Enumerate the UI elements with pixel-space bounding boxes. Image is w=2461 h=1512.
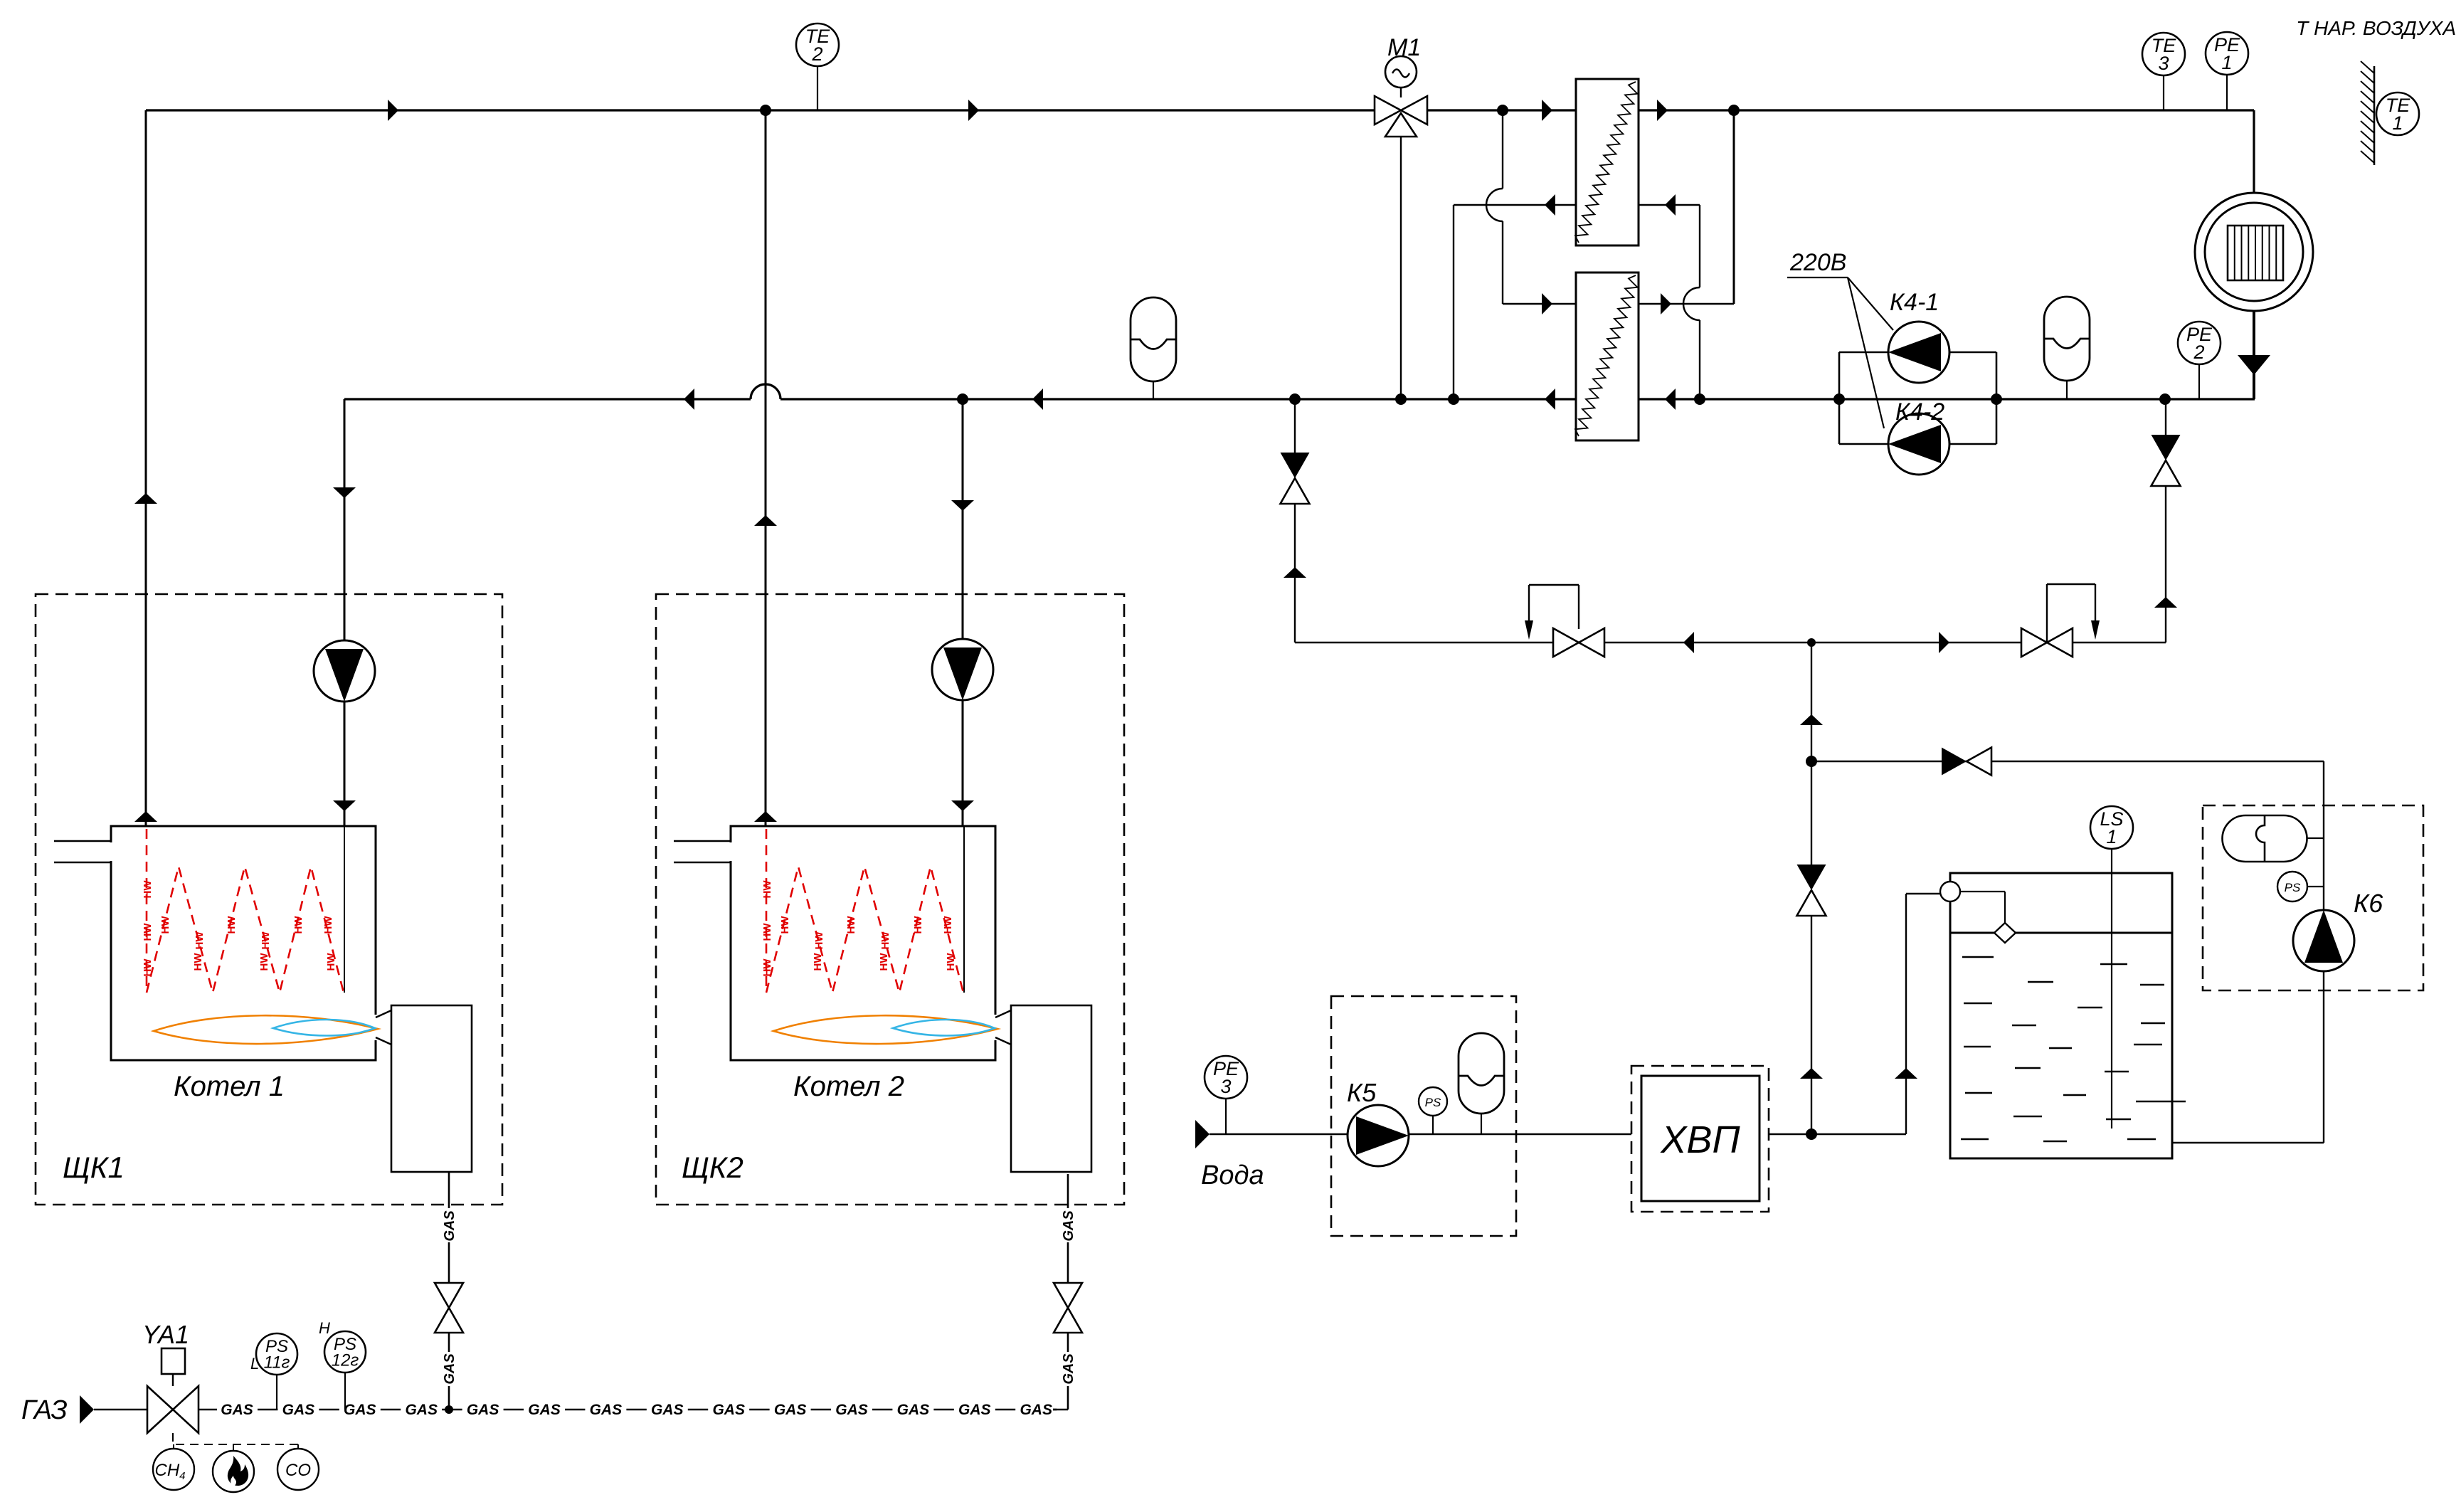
svg-text:HW: HW (945, 953, 957, 971)
svg-text:HW: HW (812, 953, 824, 971)
svg-text:GAS: GAS (405, 1402, 438, 1418)
svg-text:HW: HW (194, 931, 206, 950)
svg-text:HW: HW (878, 953, 890, 971)
svg-text:3: 3 (2158, 53, 2169, 74)
svg-text:HW: HW (942, 916, 954, 934)
svg-text:220В: 220В (1789, 249, 1846, 276)
svg-text:HW: HW (912, 916, 924, 934)
svg-text:GAS: GAS (221, 1402, 253, 1418)
svg-text:HW: HW (325, 953, 337, 971)
svg-text:GAS: GAS (712, 1402, 745, 1418)
svg-text:К4-1: К4-1 (1890, 289, 1939, 316)
svg-text:К6: К6 (2354, 889, 2383, 918)
svg-text:GAS: GAS (467, 1402, 499, 1418)
svg-text:HW: HW (761, 880, 773, 899)
svg-text:1: 1 (2392, 112, 2403, 134)
svg-text:К4-2: К4-2 (1895, 398, 1944, 425)
svg-text:12г: 12г (332, 1351, 359, 1370)
svg-text:11г: 11г (264, 1353, 290, 1373)
svg-text:ЩК1: ЩК1 (63, 1151, 125, 1184)
svg-text:Т НАР. ВОЗДУХА: Т НАР. ВОЗДУХА (2296, 17, 2456, 39)
svg-text:GAS: GAS (442, 1353, 457, 1385)
svg-text:CO: CO (285, 1461, 311, 1480)
svg-text:HW: HW (142, 923, 154, 941)
svg-text:GAS: GAS (774, 1402, 807, 1418)
svg-text:HW: HW (845, 916, 857, 934)
svg-text:HW: HW (142, 880, 154, 899)
svg-text:GAS: GAS (835, 1402, 868, 1418)
svg-text:ХВП: ХВП (1659, 1119, 1740, 1161)
svg-text:GAS: GAS (1020, 1402, 1052, 1418)
svg-text:GAS: GAS (282, 1402, 315, 1418)
svg-text:HW: HW (322, 916, 334, 934)
svg-text:GAS: GAS (1061, 1210, 1076, 1242)
svg-text:HW: HW (779, 916, 791, 934)
svg-text:HW: HW (879, 931, 891, 950)
svg-text:1: 1 (2106, 826, 2117, 847)
svg-text:HW: HW (761, 958, 773, 977)
svg-text:GAS: GAS (528, 1402, 561, 1418)
svg-text:GAS: GAS (1061, 1353, 1076, 1385)
svg-text:M1: M1 (1387, 34, 1421, 61)
svg-text:GAS: GAS (897, 1402, 930, 1418)
svg-text:1: 1 (2221, 52, 2232, 73)
svg-text:ЩК2: ЩК2 (682, 1151, 743, 1184)
svg-text:2: 2 (811, 43, 822, 65)
svg-text:HW: HW (813, 931, 825, 950)
svg-text:PS: PS (2285, 881, 2301, 894)
svg-text:HW: HW (142, 958, 154, 977)
svg-text:PS: PS (1425, 1096, 1441, 1109)
svg-text:HW: HW (260, 931, 272, 950)
svg-text:HW: HW (159, 916, 171, 934)
svg-text:Котел 2: Котел 2 (793, 1071, 904, 1102)
svg-text:Вода: Вода (1201, 1161, 1264, 1190)
svg-text:H: H (319, 1319, 330, 1337)
svg-text:GAS: GAS (590, 1402, 623, 1418)
svg-text:HW: HW (192, 953, 204, 971)
svg-text:GAS: GAS (651, 1402, 684, 1418)
svg-text:HW: HW (761, 923, 773, 941)
svg-text:2: 2 (2193, 342, 2204, 363)
svg-text:HW: HW (258, 953, 270, 971)
svg-text:GAS: GAS (344, 1402, 376, 1418)
svg-text:HW: HW (292, 916, 305, 934)
svg-text:Котел 1: Котел 1 (174, 1071, 285, 1102)
svg-text:YA1: YA1 (142, 1320, 189, 1349)
svg-text:HW: HW (226, 916, 238, 934)
svg-text:К5: К5 (1347, 1078, 1377, 1107)
svg-text:GAS: GAS (442, 1210, 457, 1242)
svg-text:3: 3 (1220, 1076, 1231, 1097)
svg-text:L: L (250, 1355, 259, 1373)
svg-text:ГАЗ: ГАЗ (21, 1395, 68, 1425)
svg-text:GAS: GAS (958, 1402, 991, 1418)
